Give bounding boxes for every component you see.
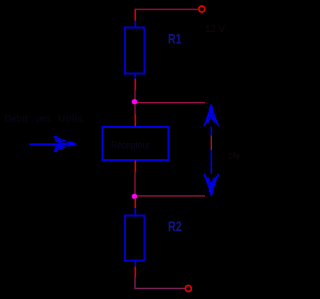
wire red into box top xyxy=(134,114,136,127)
wire blue lead R2 bottom xyxy=(134,261,136,267)
voltage arrow down solid tip xyxy=(209,187,214,198)
arrow input shaft xyxy=(29,143,66,145)
resistor R1 xyxy=(125,28,145,74)
svg-text:R1: R1 xyxy=(168,31,182,47)
voltage arrow lower shaft xyxy=(210,150,212,174)
wire blue lead R2 top xyxy=(134,208,136,216)
node A junction dot xyxy=(132,99,137,104)
wire maroon to node A xyxy=(134,90,136,100)
svg-text:Débit: Débit xyxy=(5,114,29,125)
wire red below R1 xyxy=(134,79,136,90)
voltage arrow up solid tip xyxy=(209,103,214,114)
wire node A down maroon xyxy=(134,104,136,114)
wire node A to right xyxy=(137,102,205,104)
svg-text:R2: R2 xyxy=(168,218,182,234)
svg-text:Récepteur: Récepteur xyxy=(111,141,151,152)
voltage arrow down head feathers xyxy=(204,174,218,188)
voltage arrow red middle segment xyxy=(210,136,212,151)
node B junction dot xyxy=(132,194,137,199)
wire purple to bottom rail xyxy=(135,278,185,289)
wire node B to right xyxy=(137,195,205,197)
voltage arrow upper shaft xyxy=(210,127,212,136)
svg-text:URe: URe xyxy=(229,151,241,161)
terminal +V circle xyxy=(199,6,205,12)
wire blue lead R1 top xyxy=(134,21,136,28)
wire red stub to R1 top xyxy=(134,9,136,21)
wire blue lead R1 bottom xyxy=(134,74,136,80)
resistor R2 xyxy=(125,216,145,261)
wire maroon to node B xyxy=(134,173,136,194)
svg-text:12 V: 12 V xyxy=(205,24,225,35)
arrow input solid tip xyxy=(67,142,78,147)
wire red below box xyxy=(134,161,136,173)
svg-text:vers: vers xyxy=(36,114,51,125)
wire red node B down xyxy=(134,198,136,208)
terminal 0V circle xyxy=(185,286,191,292)
voltage arrow up head feathers xyxy=(204,113,218,127)
wire red below R2 xyxy=(134,267,136,278)
wire top rail horizontal xyxy=(135,8,199,10)
svg-text:Utilis.: Utilis. xyxy=(58,114,86,125)
box Récepteur xyxy=(103,127,169,160)
arrow input head feathers xyxy=(54,137,67,152)
